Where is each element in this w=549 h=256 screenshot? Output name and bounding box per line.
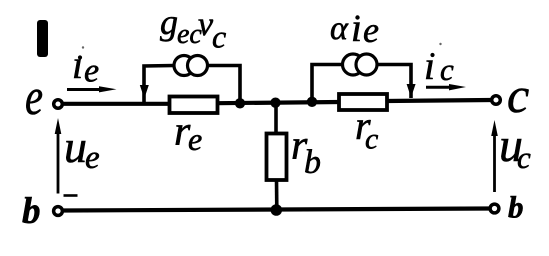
current source alpha ie loop right wire	[377, 65, 411, 99]
svg-text:e: e	[85, 140, 100, 176]
wire rb top	[274, 103, 278, 134]
svg-text:b: b	[508, 190, 524, 225]
current arrow ie	[67, 86, 117, 92]
terminal e	[54, 100, 63, 109]
voltage uc label	[499, 119, 531, 175]
resistor rb label	[291, 123, 321, 181]
wire rb bottom	[275, 180, 279, 208]
wire re to rc	[217, 102, 340, 103]
voltage ue label	[64, 121, 100, 176]
speck	[439, 43, 441, 45]
svg-text:c: c	[440, 52, 454, 87]
current source gec vc arrow	[140, 85, 149, 99]
svg-text:u: u	[64, 121, 87, 172]
junction re-loop	[235, 98, 245, 108]
wire bottom	[64, 209, 491, 211]
terminal b right	[490, 204, 499, 213]
current ie label	[72, 42, 99, 90]
svg-text:e: e	[25, 68, 43, 126]
svg-text:ı: ı	[72, 42, 83, 87]
node e label	[25, 68, 43, 126]
wire rc to c	[386, 100, 492, 101]
bold mark	[37, 20, 48, 57]
resistor rc label	[355, 103, 378, 156]
svg-text:ı: ı	[424, 43, 435, 88]
svg-text:c: c	[507, 67, 529, 123]
voltage arrow ue	[55, 118, 62, 194]
current source alpha ie symbol	[343, 54, 378, 75]
svg-text:c: c	[517, 140, 531, 175]
svg-text:e: e	[84, 53, 99, 90]
current source gec vc value label	[160, 2, 226, 55]
svg-text:c: c	[212, 19, 226, 55]
junction rb bottom	[271, 204, 283, 216]
resistor re label	[174, 109, 202, 157]
current ic label	[424, 43, 454, 88]
svg-text:c: c	[365, 123, 378, 156]
svg-text:α: α	[330, 10, 349, 47]
wire e to re	[64, 102, 170, 106]
svg-text:ı: ı	[351, 5, 362, 50]
current arrow ic	[426, 84, 466, 90]
minus sign ue	[64, 194, 78, 197]
current source alpha ie loop left wire	[312, 65, 343, 101]
current source gec vc loop left wire	[144, 66, 174, 103]
junction rc-loop	[307, 97, 317, 107]
svg-text:e: e	[363, 10, 379, 50]
svg-text:g: g	[160, 2, 178, 42]
svg-text:b: b	[22, 191, 41, 232]
resistor re	[170, 97, 218, 114]
terminal c	[492, 96, 501, 105]
terminal b left	[54, 207, 63, 216]
junction rb top	[270, 98, 280, 108]
resistor rb	[267, 134, 287, 181]
svg-text:b: b	[304, 144, 321, 181]
speck	[82, 46, 84, 48]
current source gec vc symbol	[174, 56, 208, 76]
current source alpha ie arrow	[407, 84, 416, 98]
voltage arrow uc	[491, 120, 498, 192]
svg-text:e: e	[188, 121, 202, 157]
current source gec vc loop right wire	[208, 66, 241, 102]
current source alpha ie value label	[330, 5, 379, 50]
resistor rc	[339, 94, 387, 110]
